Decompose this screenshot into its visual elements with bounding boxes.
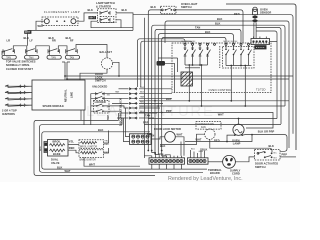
- wire sensor down: [254, 15, 256, 39]
- svg-text:Rendered by LeadVenture, Inc.: Rendered by LeadVenture, Inc.: [168, 176, 243, 182]
- svg-text:DOOR LOCK MOTOR: DOOR LOCK MOTOR: [154, 127, 181, 131]
- svg-text:WHT: WHT: [25, 31, 31, 34]
- wire stair 4: [148, 118, 277, 120]
- wire bus top b: [165, 21, 289, 148]
- svg-text:RR: RR: [52, 39, 56, 43]
- svg-text:NO: NO: [107, 94, 111, 96]
- svg-text:2 OR 4 TOP: 2 OR 4 TOP: [2, 109, 17, 113]
- svg-text:RF: RF: [70, 39, 74, 43]
- group separator dashed: [219, 46, 221, 68]
- svg-text:PRP: PRP: [282, 153, 288, 157]
- svg-text:TAN: TAN: [51, 57, 56, 60]
- control bus A: [185, 64, 208, 66]
- door lock motor M1: [165, 132, 176, 143]
- wire bus top c: [152, 25, 285, 150]
- svg-text:FAN: FAN: [201, 126, 206, 129]
- wire spark module line up: [65, 76, 293, 79]
- svg-text:SENSOR: SENSOR: [260, 11, 271, 15]
- sensor connector plug 2: [252, 19, 257, 22]
- control bus B dots: [230, 65, 232, 67]
- svg-text:OVEN CONTROL: OVEN CONTROL: [209, 88, 233, 92]
- relay contact A4: [206, 45, 210, 65]
- control exit wire 4: [244, 66, 246, 107]
- svg-text:BLK: BLK: [88, 8, 94, 12]
- svg-text:T1/T2D: T1/T2D: [256, 87, 266, 91]
- wire feeder A1: [138, 39, 186, 87]
- svg-text:CONVECT ION: CONVECT ION: [197, 123, 214, 126]
- bake ignitor R2: [79, 150, 104, 158]
- svg-text:BLK: BLK: [160, 144, 166, 148]
- wire bundle mid-left vertical 1: [118, 113, 120, 120]
- junction dots stair: [154, 100, 156, 102]
- wire into strip2: [191, 148, 205, 156]
- control coil hatched: [181, 72, 193, 86]
- svg-text:PRP: PRP: [143, 121, 149, 125]
- svg-text:NEUTRAL: NEUTRAL: [64, 89, 68, 102]
- svg-text:BLK: BLK: [217, 17, 223, 21]
- svg-text:IGNITORS: IGNITORS: [2, 112, 15, 116]
- relay contact B4: [248, 45, 252, 65]
- wire stair 2: [139, 105, 285, 107]
- relay contact B3: [240, 45, 244, 65]
- wire lamp left terminal: [227, 135, 235, 141]
- fluorescent lamp FL1: [42, 17, 78, 26]
- wire drop 181: [180, 142, 182, 156]
- wire stair BLK below control: [139, 100, 289, 102]
- wire loop inner around bake assembly: [40, 125, 204, 173]
- svg-text:BAKE IGNITOR: BAKE IGNITOR: [80, 159, 97, 162]
- oven sensor RT1: [253, 7, 272, 15]
- wire loop C: [42, 132, 207, 169]
- wire ignitor white down: [84, 157, 140, 166]
- convection fan label box: [196, 122, 221, 130]
- svg-text:SWITCH: SWITCH: [95, 79, 106, 83]
- wire blk or prp: [242, 135, 287, 152]
- junction cluster: [147, 150, 149, 152]
- wire plug left: [208, 161, 223, 163]
- label WHT tag starter: [89, 16, 97, 19]
- wire bundle mid-left vertical 2: [121, 118, 123, 125]
- wire lamp top: [238, 119, 240, 125]
- svg-text:SWITCH: SWITCH: [255, 165, 266, 169]
- svg-text:RED: RED: [104, 144, 109, 146]
- wire BLK lamp to starter: [76, 13, 98, 21]
- oven control box: [172, 43, 271, 93]
- wire loop outer BLK around bake assembly: [34, 120, 155, 175]
- svg-text:SWITCH: SWITCH: [181, 5, 192, 9]
- svg-text:WHT: WHT: [218, 113, 224, 117]
- dual valve connector: [44, 142, 48, 153]
- door actuated switch S3: [255, 150, 281, 161]
- dual valve V1: [48, 140, 69, 157]
- wire valve to broil ignitor: [68, 144, 79, 146]
- wire switch left: [235, 157, 254, 162]
- wire RF to ballast: [76, 45, 107, 58]
- wire spark module down pair: [81, 110, 84, 125]
- svg-text:TAN: TAN: [195, 26, 200, 30]
- connector block 2x4: [130, 134, 152, 145]
- control terminal rings group A: [184, 43, 216, 45]
- ignitor arrow 3: [5, 97, 32, 100]
- disconnect block connectors: [103, 87, 172, 119]
- control exit wire 1: [188, 65, 190, 101]
- wire PRP to frame: [280, 156, 296, 158]
- wire ignitors right: [104, 131, 109, 154]
- wire bridge: [13, 46, 26, 51]
- valve coil TAN LR: [2, 55, 16, 59]
- wire door lock left link: [91, 94, 97, 125]
- valve coil TAN RF: [65, 55, 79, 59]
- sensor connector plug 1: [252, 16, 257, 19]
- svg-text:NO: NO: [107, 107, 111, 109]
- svg-text:BALLAST: BALLAST: [100, 50, 113, 54]
- control left verticals: [175, 58, 178, 93]
- chassis frame right: [226, 4, 296, 150]
- svg-text:LAMP: LAMP: [233, 142, 241, 146]
- convection fan M2: [205, 129, 215, 139]
- control left entry wires: [158, 58, 177, 63]
- relay contact A3: [199, 45, 203, 65]
- svg-text:PRP: PRP: [106, 115, 110, 121]
- wire bridge: [58, 46, 67, 51]
- wire motor right: [175, 137, 184, 156]
- svg-text:BROIL IGNITOR: BROIL IGNITOR: [80, 147, 97, 149]
- top valve switch RR: [48, 39, 60, 56]
- terminal strip 1: [149, 156, 185, 169]
- wire LR left feed: [2, 51, 4, 55]
- svg-text:2A0 2A1 2A2 2A3: 2A0 2A1 2A2 2A3: [223, 40, 237, 43]
- relay contact B2: [233, 45, 237, 65]
- svg-text:WHT: WHT: [140, 87, 146, 89]
- svg-text:NO: NO: [274, 158, 278, 160]
- control bus A dots: [188, 64, 190, 66]
- svg-text:BROIL: BROIL: [53, 140, 62, 144]
- svg-text:TAN: TAN: [70, 57, 75, 60]
- svg-text:NORMALLY OPEN.: NORMALLY OPEN.: [6, 63, 30, 67]
- svg-text:TAN: TAN: [145, 113, 150, 117]
- top valve switch LF: [26, 39, 38, 56]
- ignitor arrow 1: [5, 85, 32, 88]
- svg-text:BLK OR PRP: BLK OR PRP: [258, 129, 275, 133]
- svg-text:BLK: BLK: [140, 92, 145, 94]
- svg-text:CORD: CORD: [232, 172, 240, 176]
- broil ignitor R1: [79, 140, 104, 149]
- svg-text:WHT: WHT: [177, 133, 183, 137]
- svg-text:BLK: BLK: [215, 22, 221, 26]
- wire ballast bottom: [80, 69, 107, 80]
- svg-text:NC: NC: [274, 153, 278, 155]
- control terminal rings group B: [225, 43, 250, 45]
- svg-text:LINE: LINE: [70, 92, 74, 98]
- label WHT tag: [24, 31, 31, 34]
- valve coil TAN RR: [47, 55, 61, 59]
- wire feeder A2: [141, 41, 193, 87]
- svg-text:UNLOCKED: UNLOCKED: [92, 84, 107, 88]
- sensor header J1: [251, 39, 270, 45]
- relay contact A2: [191, 45, 195, 65]
- svg-text:1A0 1A1 1A2 1A3: 1A0 1A1 1A2 1A3: [181, 40, 195, 43]
- svg-text:BLU: BLU: [191, 149, 195, 151]
- svg-text:RED: RED: [214, 139, 220, 143]
- valve coil TAN LF: [25, 55, 39, 59]
- svg-text:BAKE: BAKE: [53, 152, 61, 156]
- wire stair PRP low: [144, 124, 281, 126]
- svg-text:BRN: BRN: [40, 146, 42, 151]
- svg-text:BOARD: BOARD: [210, 171, 220, 175]
- wire bundle vertical h: [143, 18, 145, 158]
- wire BLK starter to right: [116, 13, 133, 31]
- connector J2 dark: [255, 45, 267, 49]
- wire sensor harness right: [256, 28, 281, 125]
- svg-text:BLK: BLK: [151, 5, 157, 9]
- svg-text:GRN: GRN: [199, 151, 204, 153]
- svg-text:TAN: TAN: [115, 90, 120, 93]
- top valve switch LR: [3, 39, 15, 56]
- lamp switch and starter S1: [98, 9, 117, 23]
- svg-text:WHT: WHT: [65, 169, 71, 173]
- oven lamp E1: [233, 124, 244, 136]
- wire bus top f: [162, 37, 226, 156]
- oven light switch S2: [161, 6, 177, 14]
- svg-text:TAN: TAN: [147, 132, 152, 136]
- wire starter loop: [91, 20, 133, 28]
- terminal strip 2: [188, 156, 209, 164]
- top valve switch RF: [66, 39, 78, 56]
- svg-text:SPARK MODULE: SPARK MODULE: [43, 104, 65, 108]
- relay contact B1: [225, 45, 229, 65]
- svg-text:YEL: YEL: [69, 139, 75, 143]
- wire spark module neutral up: [62, 62, 70, 80]
- wire WHT lamp left: [36, 21, 44, 30]
- svg-text:RED: RED: [69, 146, 75, 150]
- svg-text:LF: LF: [30, 39, 34, 43]
- wire fan down: [210, 139, 272, 152]
- svg-text:RED: RED: [234, 12, 240, 16]
- wire bus top e BLK: [158, 34, 233, 154]
- svg-text:TAN: TAN: [140, 95, 145, 98]
- svg-text:VALVE: VALVE: [51, 161, 60, 165]
- svg-text:LOCKED: LOCKED: [95, 100, 106, 104]
- svg-text:BLK: BLK: [166, 97, 172, 101]
- ballast B1: [100, 50, 113, 69]
- svg-text:CLOSED FOR START: CLOSED FOR START: [6, 67, 33, 71]
- svg-text:TAN: TAN: [6, 57, 11, 60]
- wire block feed upper: [126, 108, 130, 137]
- svg-text:BLK: BLK: [98, 128, 104, 132]
- wire bus top a: [133, 15, 293, 134]
- svg-text:TAN: TAN: [29, 57, 34, 60]
- svg-text:WHT: WHT: [89, 162, 95, 166]
- control exit wire 2: [201, 65, 203, 106]
- svg-text:BLK: BLK: [205, 30, 211, 34]
- ignitor arrow 2: [5, 91, 32, 94]
- svg-text:LR: LR: [7, 39, 11, 43]
- wire J1 right: [270, 41, 278, 43]
- wire bridge: [36, 46, 50, 51]
- svg-text:BLK: BLK: [24, 36, 30, 40]
- svg-text:PRP: PRP: [166, 109, 172, 113]
- wire block feed lower: [124, 118, 130, 142]
- wire valve to bake ignitor: [68, 150, 79, 153]
- control exit wire 3: [230, 66, 232, 101]
- group B dashed box: [223, 47, 255, 69]
- wire stair PRP: [139, 113, 273, 129]
- wire block to motor: [151, 137, 165, 139]
- svg-text:FLUORESCENT LAMP: FLUORESCENT LAMP: [44, 10, 80, 14]
- J1 pin stubs: [254, 37, 267, 39]
- wire WHT neutral run down left side: [28, 30, 133, 45]
- supply cord plug P1: [223, 155, 236, 168]
- spark module SM1: [32, 80, 85, 110]
- wire bundle vertical g: [147, 21, 149, 150]
- control bus B: [226, 65, 252, 67]
- wire BLK feed oven light switch: [148, 10, 160, 21]
- dark connector on bundle: [157, 61, 166, 66]
- wire fan left: [160, 134, 205, 144]
- wire ballast right: [113, 62, 119, 76]
- svg-text:& STARTER: & STARTER: [96, 5, 111, 9]
- wire bus top d TAN: [155, 29, 241, 152]
- door lock switch unlocked contacts: [96, 92, 111, 100]
- ignitor arrow 4: [5, 104, 32, 107]
- door lock switch locked contacts: [94, 100, 111, 113]
- wire RED oven light switch to control: [176, 10, 243, 43]
- wire bundle into strip1: [144, 151, 170, 157]
- wire red run: [185, 135, 252, 142]
- svg-text:WHT: WHT: [89, 17, 95, 20]
- svg-text:WHT: WHT: [38, 24, 44, 28]
- svg-text:BLK: BLK: [122, 8, 128, 12]
- relay contact A1: [184, 45, 188, 65]
- svg-text:TOP VALVE SWITCHES: TOP VALVE SWITCHES: [6, 60, 36, 64]
- control bus A2: [185, 67, 200, 69]
- svg-text:BLK: BLK: [269, 144, 275, 148]
